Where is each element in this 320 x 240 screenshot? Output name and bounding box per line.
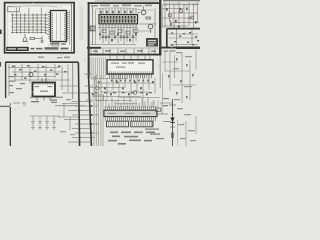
wire inner sub panel <box>168 33 198 35</box>
long bus wire right of panel C <box>78 62 79 146</box>
part number label black <box>6 47 29 51</box>
wire left column panel B <box>92 6 94 45</box>
wire bundle below U201 <box>100 24 136 45</box>
text marks bottom right <box>177 108 196 141</box>
text block panel B top <box>91 4 152 6</box>
component outline top left panel A <box>8 7 19 12</box>
long bus wire from panel B <box>89 78 92 146</box>
transistor Q401 <box>29 73 33 77</box>
component dashes panel C <box>12 65 66 79</box>
IC U501 inner pin dividers <box>106 111 156 116</box>
wire stub panel C to bus <box>60 85 79 87</box>
wire segments sub panel <box>170 44 198 46</box>
transistor Q301 <box>169 14 172 17</box>
wire thin continuation <box>101 47 159 49</box>
bus wire continuation <box>159 47 161 56</box>
diode D501 <box>170 118 174 123</box>
resistor R210 <box>146 17 151 19</box>
wire stubs from mid field down <box>143 99 158 110</box>
IC U301 jungle black frame <box>107 60 153 74</box>
text marks near D501 <box>163 98 169 106</box>
panel A inner margin line <box>7 5 71 50</box>
text marks top right <box>163 4 198 6</box>
wire verticals right middle <box>165 50 196 103</box>
component box left panel B <box>90 26 96 31</box>
panel B border left wire <box>88 2 90 78</box>
wire horizontals top right <box>162 9 199 27</box>
resistor cluster top right <box>166 8 197 28</box>
IC U401 inner top tick row <box>35 84 53 85</box>
wire row mid panel B <box>90 44 136 46</box>
panel A inner border right <box>71 4 73 52</box>
vertical bus wire bottom left <box>10 107 11 146</box>
wire horizontals panel C <box>8 68 70 81</box>
IC U501 pins bottom <box>106 117 156 122</box>
wire segment right panel B <box>139 23 156 25</box>
panel B bottom corner wire <box>87 47 101 49</box>
connector block CN501 <box>107 121 129 127</box>
transistor Q202 <box>148 24 153 29</box>
IC U1 pins right <box>67 13 69 39</box>
panel C border top <box>5 61 78 63</box>
IC U301 inner pin ticks bottom <box>110 71 152 73</box>
components right middle <box>168 58 194 98</box>
resistor R502 <box>171 133 173 138</box>
capacitor bank C501 <box>31 116 56 127</box>
transistor Q302 <box>180 10 183 13</box>
wire branch to D501 <box>163 121 170 123</box>
shield hatch left of U301 <box>90 58 105 80</box>
wire row below U201 <box>98 26 138 28</box>
resistor R1 <box>30 38 35 40</box>
IC U301 label dashes <box>111 62 145 67</box>
text rows bottom far left <box>60 131 75 135</box>
wire bundle above U201 <box>100 8 136 15</box>
text marks right middle <box>164 50 193 100</box>
junction dots bus <box>79 105 93 134</box>
wire verticals top right <box>165 2 198 28</box>
wire stub U501 right <box>157 113 168 115</box>
bus wire ticks crossing <box>64 102 99 143</box>
IC U1 pins left <box>48 13 50 39</box>
wire bus horizontal rows key matrix <box>11 15 46 33</box>
scan grain speckles <box>5 3 195 143</box>
connector pins dashes <box>109 122 154 126</box>
components inside sub panel <box>171 32 199 46</box>
smudge panel A top <box>12 6 58 7</box>
resistor R205 <box>91 26 94 31</box>
component box outline bottom panel A <box>52 43 59 46</box>
IC U1 inner columns <box>56 13 58 40</box>
wire vertical mid right <box>162 73 164 103</box>
junction dot above D501 <box>172 114 174 116</box>
transistor Q305 <box>133 91 137 95</box>
wire vertical right lower <box>177 120 179 146</box>
wire segment mid field long <box>118 97 160 99</box>
transistor Q304 <box>96 86 100 90</box>
IC U401 pins bottom <box>37 97 50 101</box>
IC U201 hybrid module <box>99 15 138 24</box>
sub panel border top <box>167 28 200 30</box>
ground symbols capacitor bank <box>31 128 56 130</box>
wire left bottom area <box>62 103 79 105</box>
wire ticks D501 branch <box>169 104 176 106</box>
wire ticks crossing left bus <box>84 73 92 75</box>
IC U1 inner pin dots left <box>52 13 53 40</box>
IC U1 inner pin dots right <box>64 13 65 40</box>
sub panel border left <box>166 29 168 48</box>
IC U501 pins top <box>106 107 156 110</box>
connector CN201 <box>147 39 158 47</box>
text below U1 <box>50 43 66 44</box>
IC U201 mid line <box>100 18 138 20</box>
IC U401 pins top <box>42 78 46 83</box>
wire verticals gray bottom center <box>94 74 103 146</box>
text marks gap above panel C <box>38 57 70 59</box>
wire thin vertical right of bus <box>161 5 163 28</box>
second bus wire horizontal panel B bottom border <box>88 54 161 56</box>
component outline row below U201 <box>102 30 138 35</box>
text specks bottom left wire <box>13 102 26 105</box>
IC U401 module black frame <box>33 83 56 97</box>
component row below U201 <box>99 33 137 41</box>
page edge mark 1 <box>0 30 2 35</box>
text marks bottom left <box>30 97 71 101</box>
IC U501 inner dashes <box>108 113 150 114</box>
wire bus vertical columns key matrix <box>13 8 46 34</box>
component field below U301 wires <box>90 75 155 101</box>
resistor row above U201 <box>100 11 132 14</box>
wire stubs bus2 to U301 <box>110 56 150 60</box>
wire stubs between bus lines <box>91 49 155 55</box>
wire horizontal right middle <box>162 61 178 63</box>
wire horizontal dashes right of U501 <box>145 129 164 140</box>
component box right of U501 <box>156 108 161 111</box>
wire matrix to U1 <box>45 15 48 35</box>
wire capacitor bank top <box>30 115 60 117</box>
wire horizontal top right upper <box>163 3 199 5</box>
paper smudge top <box>8 5 71 8</box>
page edge mark 2 <box>0 62 1 67</box>
section border top right of bus <box>162 47 201 49</box>
transistor Q1 <box>23 38 27 42</box>
capacitor row below U201 <box>102 36 135 38</box>
IC U1 remote encoder <box>51 11 67 42</box>
wire lines right of U1 <box>68 10 70 45</box>
IC U201 pin cells top <box>101 16 136 19</box>
component box outline mid field <box>96 95 104 100</box>
wire stubs above U501 <box>106 96 154 107</box>
key switch contacts matrix junctions <box>12 14 46 33</box>
text below U401 <box>31 100 57 103</box>
junction dots top right <box>169 8 190 22</box>
transistor Q303 <box>191 16 194 19</box>
panel B border top wire <box>88 2 161 4</box>
connector block CN502 <box>131 121 153 127</box>
pin number specks below U201 <box>100 24 137 25</box>
wire verticals panel C <box>9 64 68 96</box>
text marks between bus lines <box>93 50 156 52</box>
text rows bottom center <box>108 132 155 145</box>
transistor Q201 <box>141 10 146 15</box>
panel board A outline <box>5 3 75 53</box>
pin number text above U501 <box>106 106 157 107</box>
wire vertical D501 branch <box>172 99 174 146</box>
text dashes left column panel C <box>9 76 25 93</box>
IC U501 bottom interface outline <box>104 110 157 116</box>
IC U301 pins bottom <box>110 75 152 79</box>
panel B border right bus <box>159 0 161 47</box>
IC U401 inner dashes <box>35 86 53 92</box>
capacitor C1 <box>41 36 43 41</box>
wire vertical right bottom <box>185 121 187 146</box>
label text row <box>31 47 69 49</box>
panel C border right inner <box>72 62 74 99</box>
paper smudge top right <box>163 0 200 2</box>
component dashes below U301 <box>92 81 154 95</box>
IC U201 pin cells bottom <box>101 20 136 23</box>
component specks under U301 pins <box>111 80 149 82</box>
panel C border left <box>5 62 7 98</box>
scan shade band <box>80 6 84 40</box>
